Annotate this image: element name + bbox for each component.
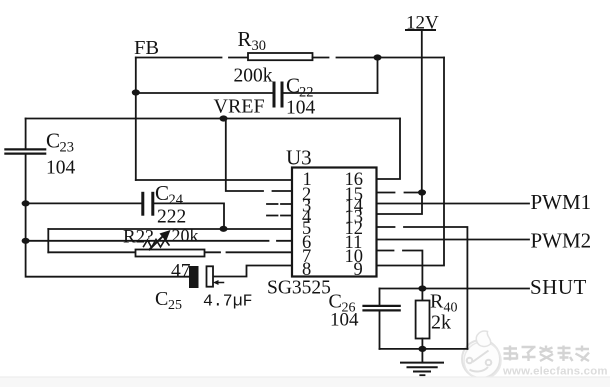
svg-text:R: R: [430, 291, 444, 313]
svg-text:C: C: [46, 129, 60, 153]
svg-text:20k: 20k: [172, 226, 199, 246]
wire left rail bottom: [26, 155, 189, 277]
wire pin6: [26, 240, 292, 242]
wire C24 left lead: [26, 202, 141, 204]
wire pin1: [136, 179, 292, 181]
wire ground rail bottom: [380, 348, 468, 350]
wire FB top horizontal to R30: [136, 57, 248, 59]
node dot VREF branch: [220, 115, 228, 121]
pin 1: [303, 170, 312, 190]
pin 10: [345, 247, 364, 267]
svg-text:www.elecfans.com: www.elecfans.com: [502, 366, 608, 378]
capacitor C25 polarized: [155, 261, 253, 313]
svg-text:200k: 200k: [234, 66, 273, 87]
node SHUT label: [530, 275, 587, 299]
wire pin8 step: [213, 266, 292, 277]
wire pin10 down to SHUT row: [377, 251, 423, 289]
svg-text:104: 104: [330, 310, 359, 331]
wire VREF horizontal: [26, 118, 400, 120]
wire C22 left lead: [136, 92, 273, 94]
net VREF label: [214, 96, 265, 118]
wire VREF branch down to pin2: [226, 119, 292, 192]
node PWM2 label: [531, 229, 592, 253]
wire pin14 PWM1 line: [377, 203, 530, 205]
pin 2: [302, 185, 311, 205]
potentiometer zigzag and wiper arrow: [144, 230, 171, 250]
wire left rail top: [25, 119, 27, 149]
wire pin5: [48, 228, 292, 230]
node dot FB/C22: [132, 89, 140, 95]
node dot rail/C24: [22, 200, 30, 206]
pin 3: [302, 197, 311, 217]
pin 9: [354, 260, 363, 280]
pin 5: [302, 219, 311, 239]
svg-text:SHUT: SHUT: [530, 275, 587, 299]
svg-text:47: 47: [171, 261, 191, 282]
svg-text:FB: FB: [134, 37, 159, 59]
svg-text:C: C: [286, 74, 300, 98]
node FB label: [134, 37, 159, 59]
op-amp U3 IC box SG3525: [267, 146, 377, 299]
wire junction down to C22 row: [377, 58, 379, 94]
wire pin3 stub: [267, 203, 292, 205]
pin 7: [302, 247, 311, 267]
svg-text:U3: U3: [286, 146, 312, 170]
ground symbol: [401, 349, 443, 375]
pin 15: [345, 185, 364, 205]
pin 11: [345, 233, 363, 253]
wire SHUT row: [380, 288, 530, 290]
power 12V: [406, 13, 439, 193]
wire pin9 riser to R30 junction: [377, 58, 445, 266]
svg-text:2k: 2k: [431, 312, 451, 334]
node dot 12V/pin15: [418, 189, 426, 195]
node junction R30/C22/pin9: [374, 54, 382, 60]
wire pin4 stub: [267, 215, 292, 217]
node dot C24/pin5 wire: [220, 226, 228, 232]
capacitor C24: [143, 181, 186, 228]
pin 16: [345, 170, 364, 190]
wire FB vertical to pin1 row: [135, 58, 137, 181]
svg-text:PWM1: PWM1: [531, 190, 592, 214]
svg-text:SG3525: SG3525: [267, 278, 331, 299]
node dot rail/pin6 wire: [22, 238, 30, 244]
node PWM1 label: [531, 190, 592, 214]
capacitor C22: [274, 74, 316, 119]
wire pin12 to ground rail: [377, 227, 468, 349]
potentiometer R2? body: [123, 226, 205, 257]
pin 12: [345, 219, 364, 239]
pin 14: [345, 197, 364, 217]
svg-text:PWM2: PWM2: [531, 229, 592, 253]
svg-text:VREF: VREF: [214, 96, 265, 118]
node dot SHUT junction: [418, 285, 426, 291]
svg-text:C: C: [155, 181, 169, 205]
pin 6: [302, 233, 311, 253]
svg-text:4.7µF: 4.7µF: [203, 292, 253, 311]
wire connector pin5-pin7: [47, 229, 49, 252]
wire C22 right lead: [284, 92, 378, 94]
wire 12V down to pin13 row: [377, 193, 422, 215]
wire pin7: [48, 251, 292, 253]
svg-text:8: 8: [302, 260, 311, 280]
footer band: [0, 376, 610, 387]
capacitor C23: [5, 129, 75, 179]
wire VREF to pin16: [377, 119, 401, 180]
svg-text:104: 104: [286, 98, 316, 119]
watermark url text: [502, 366, 608, 378]
resistor R30: [234, 27, 313, 87]
wire R30 right to junction: [313, 57, 445, 59]
svg-text:9: 9: [354, 260, 363, 280]
node dot ground junction: [418, 346, 426, 352]
polarity arrow of C25: [213, 280, 224, 285]
svg-text:23: 23: [60, 140, 75, 156]
wire C24 right lead down to pin5 wire: [155, 203, 225, 228]
svg-text:25: 25: [168, 298, 182, 313]
capacitor C26: [329, 289, 400, 349]
watermark brand glyphs: [504, 346, 590, 362]
svg-text:222: 222: [157, 207, 186, 228]
resistor R40: [416, 289, 458, 349]
svg-text:104: 104: [46, 158, 76, 179]
pin 8: [302, 260, 311, 280]
wire pin15: [377, 192, 423, 194]
wire pin11 PWM2 line: [377, 239, 530, 241]
watermark logo circle: [462, 331, 501, 379]
svg-text:R: R: [238, 27, 252, 51]
pin 4: [302, 208, 311, 228]
pin 13: [345, 208, 364, 228]
svg-text:30: 30: [252, 38, 267, 54]
svg-text:C: C: [155, 288, 168, 310]
